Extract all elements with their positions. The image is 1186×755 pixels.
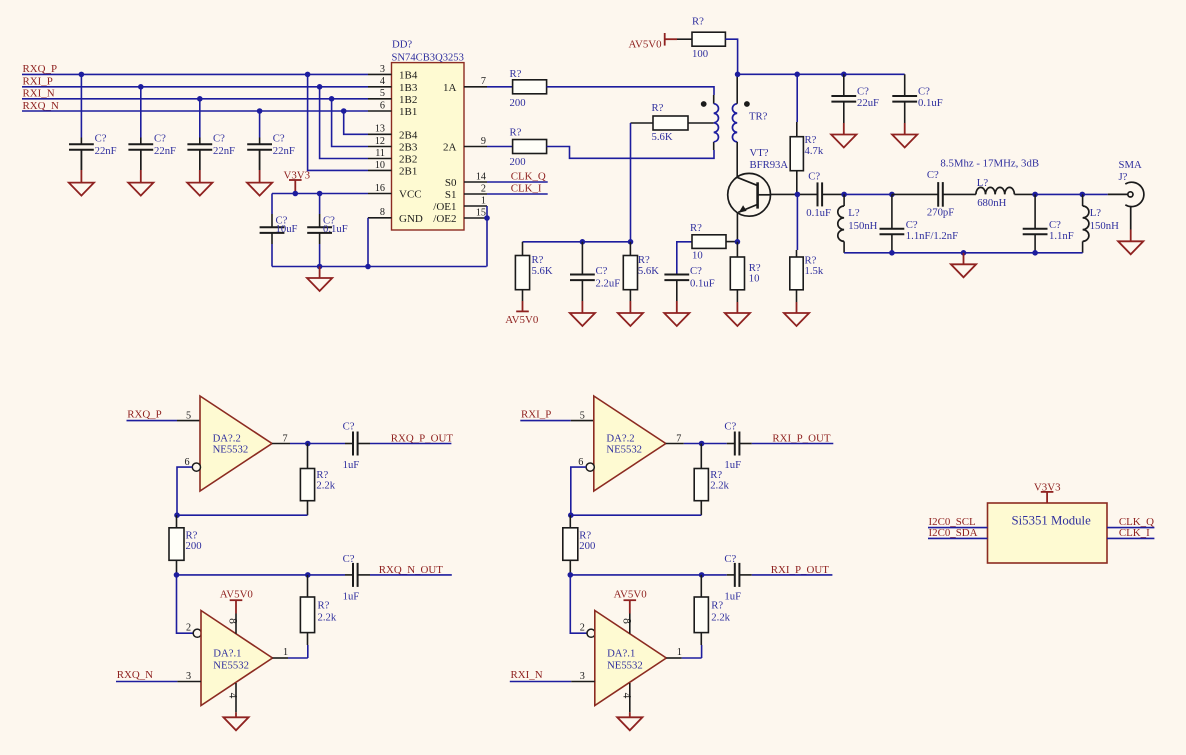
capacitor C? 1uF (RXI_P_OUT) [727, 432, 752, 456]
TR? phase dot primary [701, 101, 707, 107]
wire net I2C0_SDA [928, 537, 988, 539]
wire pin 3 stub [177, 681, 201, 683]
pin 13 (2B4) [368, 133, 392, 135]
wire pin1 riser [307, 645, 309, 658]
resistor R? 1.5k [790, 250, 803, 302]
pin 11 (2B2) [368, 158, 392, 160]
wire bias bus [523, 241, 631, 243]
svg-text:NE5532: NE5532 [213, 444, 249, 456]
resistor R? 10 horizontal [692, 235, 737, 249]
wire placeholder [824, 193, 845, 195]
svg-text:680nH: 680nH [977, 197, 1006, 209]
svg-text:1uF: 1uF [724, 459, 741, 471]
svg-text:AV5V0: AV5V0 [629, 38, 663, 50]
svg-text:C?: C? [808, 171, 820, 183]
svg-text:5.6K: 5.6K [638, 265, 659, 277]
svg-text:SN74CB3Q3253: SN74CB3Q3253 [392, 53, 464, 64]
node output node top [699, 441, 705, 447]
ground under R5.6K shunt [618, 313, 643, 326]
svg-text:1.5k: 1.5k [805, 265, 824, 277]
svg-text:1uF: 1uF [343, 590, 360, 602]
wire net RXQ_P [22, 73, 368, 75]
svg-text:22nF: 22nF [95, 145, 117, 157]
wire R100 to +node [725, 39, 737, 74]
svg-text:RXI_N: RXI_N [511, 669, 543, 681]
svg-text:12: 12 [375, 136, 385, 147]
svg-text:13: 13 [375, 124, 385, 135]
wire lead to ground [199, 170, 201, 183]
op-amp DA?.1 (RXI_N) [595, 611, 667, 706]
inverting input bubble pin6 [586, 463, 594, 471]
svg-text:C?: C? [927, 169, 939, 181]
wire pin1 wire [682, 657, 702, 659]
wire filter line 6 [1082, 193, 1108, 195]
resistor R? 5.6K bias [515, 242, 529, 301]
wire filter line 5 [1035, 193, 1082, 195]
svg-text:8.5Mhz - 17MHz, 3dB: 8.5Mhz - 17MHz, 3dB [940, 158, 1039, 170]
op-amp DA?.2 (RXI_P) [594, 396, 666, 491]
IC DD? SN74CB3Q3253 body [392, 63, 465, 230]
svg-text:1.1nF/1.2nF: 1.1nF/1.2nF [906, 230, 958, 242]
capacitor C? 270pF [938, 182, 943, 207]
svg-text:2B1: 2B1 [399, 165, 417, 177]
inverting input bubble pin6 [192, 463, 200, 471]
pin 4 stem [235, 683, 237, 712]
wire C0.1uF to R10 [677, 242, 692, 275]
wire L150 left top lead [843, 194, 845, 206]
svg-text:2B4: 2B4 [399, 129, 418, 141]
svg-text:/OE1: /OE1 [433, 201, 456, 213]
wire net RXQ_N [116, 681, 177, 683]
svg-text:NE5532: NE5532 [606, 444, 642, 456]
resistor R? 2.2k fb bottom [300, 575, 314, 645]
svg-text:1B1: 1B1 [399, 106, 417, 118]
wire filter line 3 [943, 193, 976, 195]
resistor R? 2.2k fb top [694, 444, 708, 516]
pin 8 (GND) [368, 217, 392, 219]
transistor VT? BFR93A [728, 173, 771, 216]
wire VCC corner down [271, 194, 273, 215]
node rail junction R4.7k [794, 72, 800, 78]
svg-text:15: 15 [476, 207, 486, 218]
svg-text:AV5V0: AV5V0 [220, 589, 254, 601]
wire C 22nF #3 lower lead [199, 150, 201, 170]
svg-text:11: 11 [375, 148, 385, 159]
node junction RXI_N [329, 96, 335, 102]
svg-text:DA?.1: DA?.1 [213, 648, 241, 660]
capacitor C? 1uF (RXI_P_OUT) [727, 563, 752, 587]
wire pin 5 stub [177, 420, 200, 422]
wire supply rail after R100 [738, 73, 905, 75]
pin 14 (S0) [464, 181, 487, 183]
wire net RXI_N [510, 681, 571, 683]
wire pin7 lead [272, 443, 290, 445]
svg-text:R?: R? [692, 15, 704, 27]
svg-text:2.2k: 2.2k [316, 480, 335, 492]
wire net CLK_I module [1107, 537, 1154, 539]
wire pin7 to R200 [487, 86, 513, 88]
wire route RXI_P to 2B [320, 87, 368, 159]
svg-text:2: 2 [186, 623, 191, 634]
wire route to pin2 [570, 575, 587, 633]
resistor R? 5.6K shunt [623, 242, 637, 301]
svg-text:10uF: 10uF [276, 223, 298, 235]
node gnd bus junction GND pin [365, 264, 371, 270]
svg-text:1.1nF: 1.1nF [1049, 230, 1074, 242]
svg-text:C?: C? [343, 553, 355, 565]
svg-text:RXQ_N: RXQ_N [117, 669, 153, 681]
wire net I2C0_SCL [928, 527, 988, 529]
resistor R? 200 (1A) [513, 80, 547, 94]
wire /OE tie down [486, 206, 488, 267]
capacitor C? 22nF #1 [69, 138, 94, 171]
svg-text:2.2k: 2.2k [318, 611, 337, 623]
node bus junction gnd [961, 250, 967, 256]
module Si5351 body [988, 503, 1108, 563]
capacitor C? 22uF [831, 74, 856, 123]
wire pin1 riser [701, 645, 703, 658]
wire C0.1uF to bus [319, 244, 321, 267]
inductor L? 680nH [976, 187, 1014, 194]
wire C 22nF #1 lower lead [80, 150, 82, 170]
wire net RXI_N [22, 98, 368, 100]
node junction C4 on RXQ_N [257, 108, 263, 114]
svg-text:1A: 1A [443, 82, 457, 94]
svg-text:L?: L? [848, 207, 860, 219]
wire net RXI_P_OUT [752, 574, 833, 576]
connector SMA J? [1108, 182, 1144, 229]
svg-text:DA?.1: DA?.1 [607, 648, 635, 660]
node bus junction C2 [1032, 250, 1038, 256]
svg-text:R?: R? [318, 599, 330, 611]
wire R200 to primary top [547, 87, 714, 95]
node junction C3 on RXI_N [197, 96, 203, 102]
wire tap to bias node [630, 123, 632, 242]
wire C 22nF #2 lower lead [140, 150, 142, 170]
wire pin1 lead [273, 657, 289, 659]
svg-text:270pF: 270pF [927, 206, 954, 218]
wire lower node wire [570, 574, 701, 576]
svg-text:0.1uF: 0.1uF [918, 97, 943, 109]
wire VCC net [272, 193, 368, 195]
inductor L? 150nH left [838, 206, 844, 241]
capacitor C? 1uF (RXQ_P_OUT) [345, 432, 370, 456]
svg-text:1B2: 1B2 [399, 94, 417, 106]
svg-text:4: 4 [620, 693, 632, 699]
ground under R10 [725, 313, 750, 326]
wire filter line 4 [1014, 193, 1035, 195]
svg-text:3: 3 [580, 671, 585, 682]
svg-text:5.6K: 5.6K [652, 131, 673, 143]
wire lower node wire [177, 574, 308, 576]
svg-text:NE5532: NE5532 [607, 659, 643, 671]
svg-text:4: 4 [380, 76, 385, 87]
svg-text:2B3: 2B3 [399, 142, 418, 154]
svg-text:8: 8 [380, 207, 385, 218]
wire net CLK_Q module [1107, 527, 1154, 529]
svg-text:9: 9 [481, 136, 486, 147]
svg-text:R?: R? [711, 599, 723, 611]
wire AV5V0 lead [677, 38, 692, 40]
svg-text:200: 200 [510, 156, 526, 168]
wire C 22nF #4 wire [259, 111, 261, 138]
svg-text:22nF: 22nF [273, 145, 295, 157]
node filter node 4 [1080, 192, 1086, 198]
wire out wire to cap [684, 443, 727, 445]
node filter node 1 [841, 192, 847, 198]
capacitor C? 0.1uF rail [892, 96, 917, 123]
pin 16 (VCC) [368, 193, 392, 195]
wire lead to ground [629, 712, 631, 717]
wire out wire to cap [290, 443, 345, 445]
capacitor C? 22nF #2 [128, 138, 153, 171]
svg-text:2.2k: 2.2k [711, 611, 730, 623]
svg-text:22nF: 22nF [154, 145, 176, 157]
svg-text:C?: C? [724, 421, 736, 433]
ground under R1.5k [784, 313, 809, 326]
resistor R? 200 (2A) [513, 140, 547, 154]
wire lead to ground [319, 267, 321, 279]
wire route to pin2 [177, 575, 194, 633]
power symbol V3V3 [289, 180, 302, 194]
node divider junction [174, 572, 180, 578]
wire secondary bottom lead to VT [736, 142, 738, 177]
svg-text:RXQ_P: RXQ_P [23, 63, 58, 75]
ground under C0.1uF rail [892, 135, 917, 148]
node C 0.1uF top junction [317, 191, 323, 197]
ground under C 22nF #3 [187, 183, 212, 196]
node junction RXQ_N [341, 108, 347, 114]
ground chip decoupling [307, 278, 332, 291]
node junction C1 on RXQ_P [79, 72, 85, 78]
svg-text:C?: C? [213, 132, 225, 144]
svg-text:C?: C? [343, 421, 355, 433]
svg-text:8: 8 [620, 618, 632, 624]
wire C 22nF #2 wire [140, 87, 142, 138]
node filter node 2 [889, 192, 895, 198]
svg-text:RXI_P: RXI_P [23, 76, 53, 88]
node junction RXI_P [317, 84, 323, 90]
wire pin9 to R200 [487, 146, 513, 148]
capacitor C? 22nF #3 [187, 138, 212, 171]
pin 10 (2B1) [368, 169, 392, 171]
node gnd bus junction C0.1uF [317, 264, 323, 270]
wire secondary top lead [736, 74, 738, 103]
svg-text:1: 1 [283, 647, 288, 658]
wire net CLK_I [487, 193, 548, 195]
wire lead to ground [736, 302, 738, 313]
wire SMA lead to ground [1130, 230, 1132, 242]
svg-text:VCC: VCC [399, 189, 422, 201]
wire lower out wire [702, 574, 727, 576]
svg-text:1B4: 1B4 [399, 69, 418, 81]
svg-text:6: 6 [578, 457, 583, 468]
wire net RXQ_N [22, 110, 368, 112]
transformer TR? secondary winding [732, 104, 737, 142]
svg-text:RXI_N: RXI_N [23, 88, 55, 100]
resistor R? 200 div [169, 515, 184, 575]
svg-text:5: 5 [186, 411, 191, 422]
wire net RXQ_N_OUT [370, 574, 452, 576]
svg-text:R?: R? [510, 126, 522, 138]
wire L150 right top lead [1082, 194, 1084, 206]
wire net RXQ_P_OUT [370, 443, 451, 445]
svg-text:C?: C? [690, 265, 702, 277]
node emitter junction [735, 239, 741, 245]
power symbol V3V3 module [1041, 492, 1054, 503]
wire net RXI_P_OUT [752, 443, 834, 445]
wire pin7 lead [666, 443, 684, 445]
resistor R? 2.2k fb top [300, 444, 314, 516]
wire lead to ground [140, 170, 142, 183]
svg-text:14: 14 [476, 171, 486, 182]
ground under C2.2uF [570, 313, 595, 326]
wire lead to ground [80, 170, 82, 183]
svg-text:1: 1 [481, 195, 486, 206]
pin 5 (1B2) [368, 98, 392, 100]
svg-text:10: 10 [749, 273, 760, 285]
svg-text:RXI_P: RXI_P [521, 408, 551, 420]
svg-text:6: 6 [184, 457, 189, 468]
ground under C 22nF #2 [128, 183, 153, 196]
pin 4 stem [629, 683, 631, 712]
wire lead to AV5V0 [522, 301, 524, 311]
svg-text:0.1uF: 0.1uF [323, 223, 348, 235]
svg-text:DD?: DD? [392, 39, 412, 51]
node filter node 3 [1032, 192, 1038, 198]
svg-text:200: 200 [186, 540, 202, 552]
svg-text:4: 4 [227, 693, 239, 699]
svg-text:TR?: TR? [749, 111, 768, 123]
capacitor C? 1.1nF/1.2nF [880, 194, 905, 252]
wire corner to C0.1uF [904, 74, 906, 96]
pin 9 (2A) [464, 146, 487, 148]
ground under C 22nF #1 [69, 183, 94, 196]
svg-text:2.2k: 2.2k [710, 480, 729, 492]
wire filter ground bus [844, 252, 1083, 254]
wire GND pin drop [367, 218, 369, 267]
wire C10uF to bus [271, 244, 273, 267]
node junction C2 on RXI_P [138, 84, 144, 90]
node rail junction C22uF [841, 72, 847, 78]
ground under C0.1uF bias [664, 313, 689, 326]
power symbol AV5V0 bias [516, 310, 529, 312]
svg-text:C?: C? [857, 86, 869, 98]
inverting input bubble pin2 [587, 629, 595, 637]
svg-text:R?: R? [690, 222, 702, 234]
svg-text:CLK_I: CLK_I [1119, 527, 1150, 539]
svg-text:200: 200 [510, 97, 526, 109]
svg-text:8: 8 [227, 618, 239, 624]
svg-text:0.1uF: 0.1uF [806, 207, 831, 219]
svg-text:CLK_I: CLK_I [511, 182, 542, 194]
capacitor C? 0.1uF [307, 214, 332, 244]
svg-text:BFR93A: BFR93A [750, 159, 789, 171]
wire lead to ground [843, 123, 845, 135]
svg-text:I2C0_SDA: I2C0_SDA [929, 527, 978, 539]
capacitor C? 0.1uF series [800, 182, 844, 206]
ground SMA [1118, 241, 1143, 254]
svg-text:L?: L? [1090, 207, 1102, 219]
capacitor C? 10uF [260, 214, 285, 244]
node base node [795, 192, 801, 198]
wire route RXQ_N to 2B [344, 111, 368, 134]
power symbol AV5V0 opamp [230, 600, 243, 613]
wire wire to C0.1uF [319, 194, 321, 215]
svg-text:J?: J? [1119, 171, 1128, 183]
svg-text:7: 7 [481, 76, 486, 87]
wire lead to ground [676, 301, 678, 313]
svg-text:SMA: SMA [1119, 159, 1142, 171]
wire emitter lead [736, 213, 738, 242]
svg-text:RXQ_N: RXQ_N [23, 100, 59, 112]
svg-text:V3V3: V3V3 [284, 169, 311, 181]
wire lead to ground [581, 301, 583, 313]
node /OE1-/OE2 junction [484, 215, 490, 221]
svg-text:10: 10 [375, 160, 385, 171]
wire L150 left bottom lead [843, 241, 845, 252]
ground filter [951, 264, 976, 277]
wire pin6 feedback route [177, 467, 192, 515]
capacitor C? 2.2uF [570, 242, 595, 301]
svg-text:100: 100 [692, 48, 708, 60]
power symbol AV5V0 top [665, 33, 677, 46]
ground under C 22nF #4 [247, 183, 272, 196]
wire pin1 wire [288, 657, 308, 659]
svg-text:200: 200 [579, 540, 595, 552]
wire R200 to primary bottom [547, 147, 714, 159]
pin 7 (1A) [464, 86, 487, 88]
svg-text:10: 10 [692, 250, 703, 262]
svg-text:2: 2 [580, 623, 585, 634]
svg-text:S0: S0 [445, 177, 457, 189]
svg-text:L?: L? [977, 177, 989, 189]
resistor R? 100 [692, 32, 725, 46]
power symbol AV5V0 opamp [624, 600, 637, 613]
capacitor C? 22nF #4 [247, 138, 272, 171]
wire primary top lead [713, 95, 715, 104]
wire lead to ground [259, 170, 261, 183]
node divider junction [568, 572, 574, 578]
wire net RXQ_P [127, 420, 178, 422]
svg-text:/OE2: /OE2 [433, 213, 456, 225]
svg-text:AV5V0: AV5V0 [614, 589, 648, 601]
wire route RXI_N to 2B [332, 99, 368, 147]
wire lead to ground [963, 253, 965, 264]
pin 12 (2B3) [368, 146, 392, 148]
svg-text:C?: C? [724, 553, 736, 565]
wire lead to ground [904, 123, 906, 135]
resistor R? 10 vertical [730, 242, 744, 302]
node bias junction C2.2uF [580, 239, 586, 245]
node output node bottom [305, 572, 311, 578]
wire pin 5 stub [571, 420, 594, 422]
svg-text:R?: R? [652, 102, 664, 114]
svg-text:22uF: 22uF [857, 97, 879, 109]
svg-text:5: 5 [380, 88, 385, 99]
wire base node down [796, 194, 798, 250]
wire feedback wire [177, 514, 308, 516]
wire pin6 feedback route [571, 467, 586, 515]
pin 8 stem [629, 614, 631, 634]
wire pin 3 stub [571, 681, 595, 683]
svg-text:C?: C? [95, 132, 107, 144]
wire net CLK_Q [487, 181, 548, 183]
svg-text:C?: C? [596, 265, 608, 277]
op-amp DA?.1 (RXQ_N) [201, 611, 273, 706]
wire lower out wire [308, 574, 345, 576]
wire filter line 2 [892, 193, 938, 195]
